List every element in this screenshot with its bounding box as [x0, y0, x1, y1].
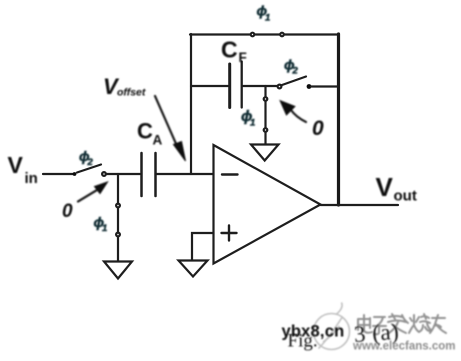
wire output: [321, 204, 399, 206]
svg-text:2: 2: [87, 157, 94, 168]
wire top feedback horizontal: [190, 33, 338, 35]
svg-text:0: 0: [312, 117, 324, 140]
label Vout: [376, 172, 417, 205]
watermark logo circle: [314, 303, 350, 350]
op-amp plus symbol: [222, 226, 237, 241]
wire switch to right vertical: [311, 85, 337, 87]
ground (op-amp plus): [179, 261, 208, 277]
wire op-amp plus input: [192, 233, 214, 260]
label Voffset: [103, 74, 146, 99]
switch S5 phi1 (CF branch): [264, 97, 268, 132]
watermark hanzi 4: [409, 314, 431, 333]
svg-text:in: in: [25, 170, 38, 187]
label Vin: [8, 152, 38, 187]
svg-text:A: A: [153, 133, 163, 148]
capacitor CA: [142, 153, 156, 196]
watermark text elecfans chinese: [358, 314, 446, 334]
svg-text:ybx8,cn: ybx8,cn: [282, 323, 345, 341]
ground (CF branch): [251, 145, 279, 161]
arrow 0 pointer (input switch): [78, 182, 108, 202]
svg-text:1: 1: [265, 13, 270, 24]
watermark hanzi 3: [388, 314, 408, 333]
capacitor CF: [230, 62, 242, 108]
wire Vin lead: [43, 173, 73, 175]
watermark hanzi 5: [430, 315, 446, 333]
wire middle feedback horizontal: [191, 85, 228, 87]
op-amp minus symbol: [222, 173, 238, 175]
label CA: [137, 119, 163, 148]
label phi1 (top switch): [257, 3, 271, 24]
switch S4 phi2 (feedback reset): [278, 77, 312, 89]
label phi2 (input switch): [79, 148, 94, 168]
label phi2 (feedback switch): [284, 57, 299, 77]
ground (input branch): [104, 262, 132, 279]
svg-text:C: C: [221, 37, 238, 63]
label phi1 (CF branch switch): [241, 108, 255, 129]
wire input node: [107, 173, 140, 175]
svg-text:V: V: [8, 152, 24, 178]
wire CF to switch: [243, 85, 278, 87]
svg-text:2: 2: [292, 66, 299, 77]
wire left feedback vertical: [190, 34, 192, 174]
arrow 0 pointer (feedback switch): [281, 101, 307, 122]
svg-text:C: C: [137, 119, 153, 144]
svg-text:3 (a): 3 (a): [353, 319, 400, 347]
arrow Voffset pointer: [155, 96, 186, 161]
caption Fig. 3 (a): [288, 319, 401, 352]
switch S3 phi1 (top feedback): [251, 33, 284, 37]
switch S2 phi1 (input branch): [116, 204, 120, 237]
svg-text:0: 0: [62, 201, 73, 222]
svg-text:1: 1: [102, 223, 107, 234]
wire summing node: [156, 173, 215, 175]
op-amp U1: [214, 145, 321, 264]
wire right feedback vertical: [337, 34, 340, 205]
watermark hanzi 1: [358, 315, 372, 333]
svg-text:offset: offset: [117, 87, 146, 99]
svg-text:V: V: [376, 172, 394, 202]
watermark hanzi 2: [373, 317, 386, 334]
wire vertical branch below CF node: [264, 86, 266, 144]
wire vertical branch below input node: [117, 174, 119, 261]
svg-text:F: F: [239, 50, 247, 65]
svg-text:out: out: [394, 188, 417, 205]
label phi1 (input branch switch): [94, 214, 108, 234]
switch S1 phi2 (input): [73, 165, 106, 176]
label CF: [221, 37, 247, 66]
svg-text:1: 1: [250, 118, 255, 129]
